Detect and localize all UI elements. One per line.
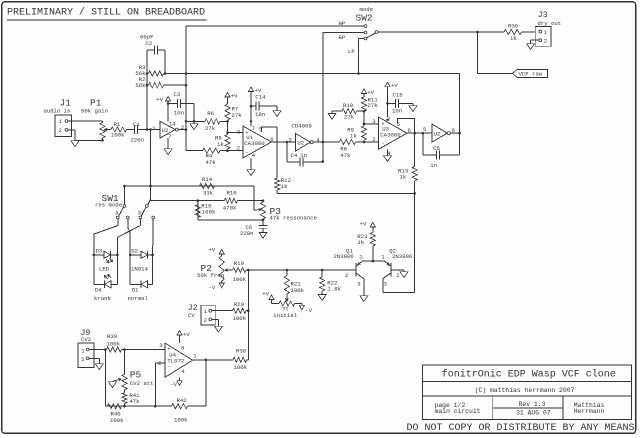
svg-text:27k: 27k: [205, 125, 216, 132]
svg-text:27k: 27k: [368, 102, 379, 109]
svg-text:2N3906: 2N3906: [392, 253, 413, 260]
svg-text:-: -: [381, 140, 384, 147]
svg-text:U2: U2: [297, 140, 304, 147]
svg-text:D4: D4: [95, 286, 102, 293]
svg-text:+V: +V: [231, 92, 238, 99]
svg-text:1k: 1k: [281, 183, 288, 190]
svg-text:2N3906: 2N3906: [334, 253, 355, 260]
svg-text:47k: 47k: [340, 152, 351, 159]
svg-text:HP: HP: [339, 20, 346, 27]
svg-text:1: 1: [193, 352, 197, 359]
svg-text:6: 6: [270, 136, 274, 143]
svg-text:2: 2: [237, 144, 240, 151]
svg-text:1.8k: 1.8k: [327, 285, 341, 292]
svg-text:-: -: [245, 148, 248, 155]
svg-text:fonitrOnic EDP Wasp VCF clone: fonitrOnic EDP Wasp VCF clone: [442, 369, 616, 381]
svg-text:220n: 220n: [131, 137, 145, 144]
svg-text:+V: +V: [262, 290, 269, 297]
svg-text:normal: normal: [128, 295, 149, 302]
svg-text:1: 1: [81, 347, 85, 354]
svg-text:2: 2: [59, 127, 62, 134]
svg-text:47k: 47k: [129, 398, 140, 405]
svg-text:(C) matthias herrmann 2007: (C) matthias herrmann 2007: [475, 387, 575, 394]
svg-text:D1: D1: [132, 286, 139, 293]
svg-text:R36: R36: [508, 22, 519, 29]
svg-text:CD4069: CD4069: [292, 122, 312, 129]
svg-text:DO NOT COPY OR DISTRIBUTE BY A: DO NOT COPY OR DISTRIBUTE BY ANY MEANS: [407, 423, 635, 434]
svg-text:220n: 220n: [240, 230, 254, 237]
svg-text:+V: +V: [391, 82, 398, 89]
svg-text:1: 1: [544, 29, 548, 36]
svg-text:+V: +V: [183, 331, 190, 338]
svg-text:10n: 10n: [392, 107, 402, 114]
svg-text:C14: C14: [255, 93, 266, 100]
svg-text:2: 2: [181, 124, 184, 131]
svg-text:1n: 1n: [430, 162, 437, 169]
svg-text:LP: LP: [348, 48, 355, 55]
svg-text:C4: C4: [291, 152, 298, 159]
svg-text:1: 1: [204, 308, 208, 315]
svg-text:1k: 1k: [400, 173, 407, 180]
svg-text:1: 1: [381, 253, 385, 260]
svg-text:CV2 att: CV2 att: [130, 380, 154, 387]
svg-text:CV2: CV2: [81, 336, 91, 343]
svg-text:100k: 100k: [233, 315, 247, 322]
svg-text:TL072: TL072: [167, 357, 184, 364]
svg-text:10n: 10n: [255, 111, 265, 118]
svg-text:U2: U2: [434, 131, 441, 138]
svg-text:7: 7: [252, 125, 255, 132]
svg-text:100k: 100k: [110, 417, 124, 424]
svg-text:krank: krank: [94, 295, 112, 302]
svg-text:2: 2: [81, 356, 84, 363]
svg-text:-V: -V: [209, 284, 216, 291]
svg-text:R6: R6: [207, 110, 214, 117]
svg-text:1: 1: [359, 253, 363, 260]
svg-text:100k: 100k: [234, 364, 248, 371]
svg-text:CV: CV: [188, 312, 195, 319]
svg-text:LED: LED: [99, 265, 110, 272]
svg-text:27k: 27k: [232, 112, 243, 119]
svg-text:P5: P5: [130, 369, 142, 380]
svg-text:2: 2: [204, 317, 207, 324]
svg-text:CA3080: CA3080: [380, 131, 401, 138]
svg-text:R19: R19: [234, 260, 244, 267]
svg-text:dry out: dry out: [538, 20, 562, 27]
svg-text:res mode: res mode: [95, 201, 123, 208]
svg-text:50k gain: 50k gain: [81, 108, 108, 115]
svg-text:10n: 10n: [174, 109, 184, 116]
svg-text:3: 3: [357, 281, 361, 288]
svg-text:2: 2: [372, 136, 375, 143]
svg-text:31 AUG 07: 31 AUG 07: [516, 409, 551, 416]
svg-text:R16: R16: [227, 189, 238, 196]
svg-text:14: 14: [169, 120, 176, 127]
svg-text:100k: 100k: [111, 131, 125, 138]
svg-text:SW2: SW2: [356, 12, 373, 23]
svg-text:2: 2: [345, 272, 348, 279]
svg-text:100k: 100k: [291, 287, 305, 294]
svg-text:2: 2: [396, 272, 399, 279]
svg-text:R10: R10: [343, 102, 354, 109]
svg-text:C15: C15: [393, 91, 404, 98]
svg-text:7: 7: [168, 133, 171, 140]
svg-text:27k: 27k: [344, 113, 355, 120]
svg-text:3: 3: [288, 136, 292, 143]
svg-text:1n: 1n: [300, 152, 307, 159]
svg-text:1k: 1k: [510, 35, 517, 42]
svg-text:D2: D2: [131, 247, 138, 254]
svg-text:R20: R20: [234, 301, 245, 308]
svg-text:main circuit: main circuit: [435, 408, 481, 415]
svg-text:R38: R38: [236, 347, 247, 354]
svg-text:C5: C5: [433, 145, 440, 152]
svg-text:47k ressonance: 47k ressonance: [270, 214, 318, 221]
svg-text:J3: J3: [538, 11, 548, 20]
svg-text:470k: 470k: [223, 204, 237, 211]
svg-text:47k: 47k: [206, 159, 217, 166]
svg-text:3: 3: [237, 128, 241, 135]
svg-text:+V: +V: [209, 246, 216, 253]
svg-text:CA3080: CA3080: [244, 140, 265, 147]
svg-text:1k: 1k: [358, 239, 365, 246]
svg-text:Herrmann: Herrmann: [574, 408, 605, 415]
svg-text:C2: C2: [146, 40, 153, 47]
svg-text:2: 2: [544, 37, 547, 44]
svg-text:1k: 1k: [350, 133, 357, 140]
svg-text:33k: 33k: [203, 189, 214, 196]
svg-text:BP: BP: [339, 34, 346, 41]
svg-text:56k: 56k: [135, 82, 146, 89]
svg-text:PRELIMINARY / STILL ON BREADBO: PRELIMINARY / STILL ON BREADBOARD: [7, 7, 205, 19]
svg-text:VCF raw: VCF raw: [519, 71, 543, 78]
svg-text:100k: 100k: [174, 417, 188, 424]
svg-text:+V: +V: [367, 89, 374, 96]
svg-text:1N914: 1N914: [131, 265, 149, 272]
svg-text:1k: 1k: [217, 141, 224, 148]
svg-text:-V: -V: [170, 381, 177, 388]
svg-text:+V: +V: [360, 221, 367, 228]
svg-text:4: 4: [252, 152, 256, 159]
svg-text:100k: 100k: [233, 276, 247, 283]
svg-text:3: 3: [159, 342, 163, 349]
svg-text:4: 4: [181, 368, 185, 375]
svg-text:R39: R39: [107, 333, 117, 340]
svg-text:R42: R42: [177, 397, 187, 404]
svg-text:D3: D3: [96, 247, 103, 254]
svg-text:3: 3: [372, 118, 376, 125]
svg-text:Rev 1.3: Rev 1.3: [519, 401, 546, 408]
svg-text:audio in: audio in: [44, 108, 71, 115]
svg-text:1: 1: [152, 125, 156, 132]
svg-text:R14: R14: [202, 176, 213, 183]
svg-text:100k: 100k: [107, 341, 121, 348]
svg-text:C3: C3: [174, 91, 181, 98]
svg-text:-V: -V: [305, 307, 312, 314]
svg-text:100k: 100k: [202, 208, 216, 215]
svg-text:initial: initial: [273, 312, 297, 319]
svg-text:+V: +V: [156, 96, 163, 103]
